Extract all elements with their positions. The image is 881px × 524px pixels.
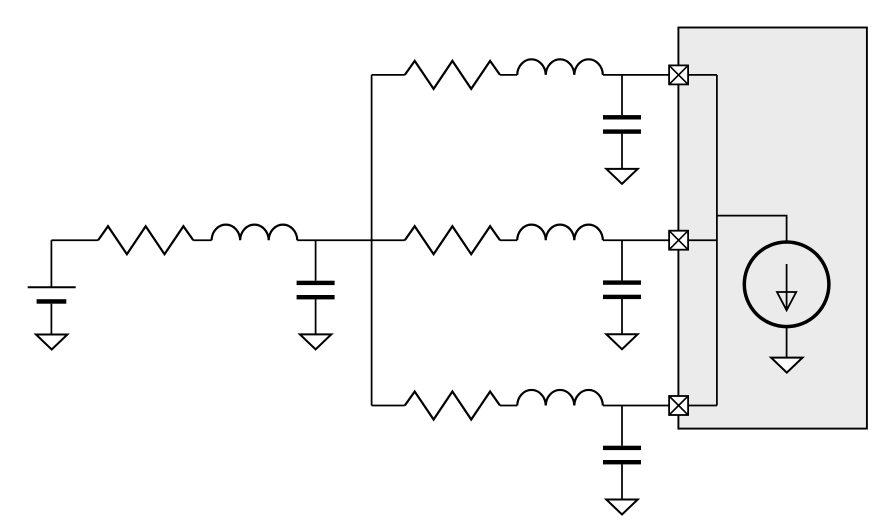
- wire battery to resistor R1: [51, 239, 98, 241]
- wire R1 to L1: [193, 239, 211, 241]
- voltage source V1: [28, 286, 76, 288]
- ground under C1: [300, 334, 331, 349]
- resistor R2: [405, 61, 500, 89]
- wire bottom pin to internal bus: [688, 405, 717, 407]
- wire battery top lead: [50, 240, 52, 287]
- inductor L4: [517, 390, 603, 406]
- wire bus to top branch: [372, 74, 405, 76]
- wire left vertical bus: [371, 75, 373, 406]
- wire top pin to internal bus: [688, 74, 717, 76]
- ground under C4: [606, 500, 637, 515]
- wire internal vertical bus: [716, 75, 718, 406]
- wire bus to bottom branch: [372, 405, 405, 407]
- wire bus tap to current source: [717, 216, 787, 243]
- ground under C3: [606, 334, 637, 349]
- ground under C2: [606, 169, 637, 184]
- wire battery bottom lead: [50, 304, 52, 335]
- resistor R3: [405, 226, 500, 254]
- wire capacitor C3 lead: [621, 240, 623, 280]
- wire C4 to ground: [621, 464, 623, 499]
- ground under V1: [36, 335, 67, 350]
- pin P3 (bottom): [669, 396, 688, 415]
- module box U1: [678, 28, 867, 429]
- wire current source to ground: [786, 326, 788, 358]
- wire capacitor C2 lead: [621, 75, 623, 115]
- wire L4 to pin: [603, 405, 669, 407]
- wire R4 to L4: [500, 405, 517, 407]
- wire capacitor C4 lead: [621, 406, 623, 446]
- resistor R4: [405, 392, 500, 420]
- inductor L2: [517, 59, 603, 75]
- wire middle pin to internal bus: [688, 239, 717, 241]
- capacitor C2: [603, 115, 641, 119]
- pin P1 (top): [669, 65, 688, 84]
- current source arrow: [786, 264, 788, 310]
- wire L2 to pin: [603, 74, 669, 76]
- wire capacitor C1 lead: [315, 240, 317, 281]
- inductor L1: [212, 225, 298, 241]
- capacitor C3: [603, 280, 641, 284]
- wire L3 to pin: [603, 239, 669, 241]
- current source I1: [744, 242, 829, 327]
- wire R2 to L2: [500, 74, 517, 76]
- wire C1 to ground: [315, 299, 317, 334]
- wire C3 to ground: [621, 299, 623, 334]
- inductor L3: [517, 225, 603, 241]
- capacitor C1: [297, 281, 335, 285]
- pin P2 (middle): [669, 231, 688, 250]
- capacitor C4: [603, 446, 641, 450]
- ground under current source: [771, 358, 802, 373]
- wire L1 to branch node: [297, 239, 405, 241]
- wire C2 to ground: [621, 134, 623, 169]
- resistor R1: [98, 226, 193, 254]
- wire R3 to L3: [500, 239, 517, 241]
